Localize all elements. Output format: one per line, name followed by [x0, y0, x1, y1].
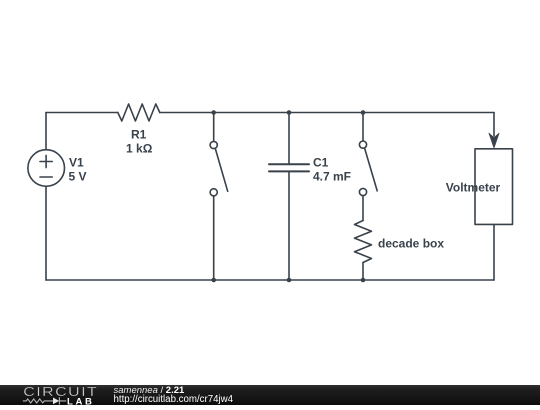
node junction bottom E — [287, 278, 292, 283]
node junction top A — [211, 110, 216, 115]
svg-text:C1: C1 — [313, 156, 329, 170]
node junction bottom F — [361, 278, 366, 283]
voltage source V1 — [28, 150, 65, 187]
wire decade box bottom lead — [362, 263, 364, 281]
label C1 value — [313, 156, 351, 184]
wire bottom rail — [46, 279, 494, 281]
svg-text:LAB: LAB — [67, 396, 95, 406]
capacitor C1 — [269, 164, 309, 171]
voltmeter M1 — [475, 133, 513, 224]
wire switch SW2 to decade box — [362, 196, 364, 221]
wire left vertical bottom — [45, 186, 47, 280]
wire capacitor C1 bottom lead — [288, 172, 290, 280]
footer bar — [0, 385, 540, 405]
wire capacitor C1 top lead — [288, 113, 290, 165]
logo CircuitLab wordmark — [0, 385, 115, 406]
svg-text:V1: V1 — [69, 155, 84, 169]
svg-text:1 kΩ: 1 kΩ — [126, 142, 153, 156]
footer author line — [114, 386, 234, 404]
svg-text:4.7 mF: 4.7 mF — [313, 170, 351, 184]
svg-text:Voltmeter: Voltmeter — [446, 181, 501, 195]
svg-text:decade box: decade box — [378, 237, 444, 251]
resistor R1 — [118, 104, 160, 121]
node junction top B — [287, 110, 292, 115]
wire top rail left segment — [46, 112, 118, 114]
label R1 value — [126, 128, 153, 156]
node junction bottom D — [211, 278, 216, 283]
wire switch SW1 top lead — [213, 113, 215, 142]
label decade box — [378, 237, 444, 251]
svg-text:5 V: 5 V — [69, 170, 87, 184]
wire left vertical top — [45, 113, 47, 150]
resistor decade box — [355, 221, 372, 263]
svg-text:R1: R1 — [131, 128, 147, 142]
wire top rail right segment — [160, 112, 494, 114]
logo resistor-diode glyph — [23, 397, 66, 404]
wire voltmeter bottom lead — [493, 224, 495, 280]
wire voltmeter top lead — [493, 113, 495, 137]
switch SW1 — [210, 141, 228, 196]
wire switch SW2 top lead — [362, 113, 364, 141]
switch SW2 — [359, 141, 377, 196]
label V1 value — [69, 155, 87, 183]
node junction top C — [361, 110, 366, 115]
wire switch SW1 bottom lead — [213, 196, 215, 280]
label Voltmeter — [446, 181, 501, 195]
